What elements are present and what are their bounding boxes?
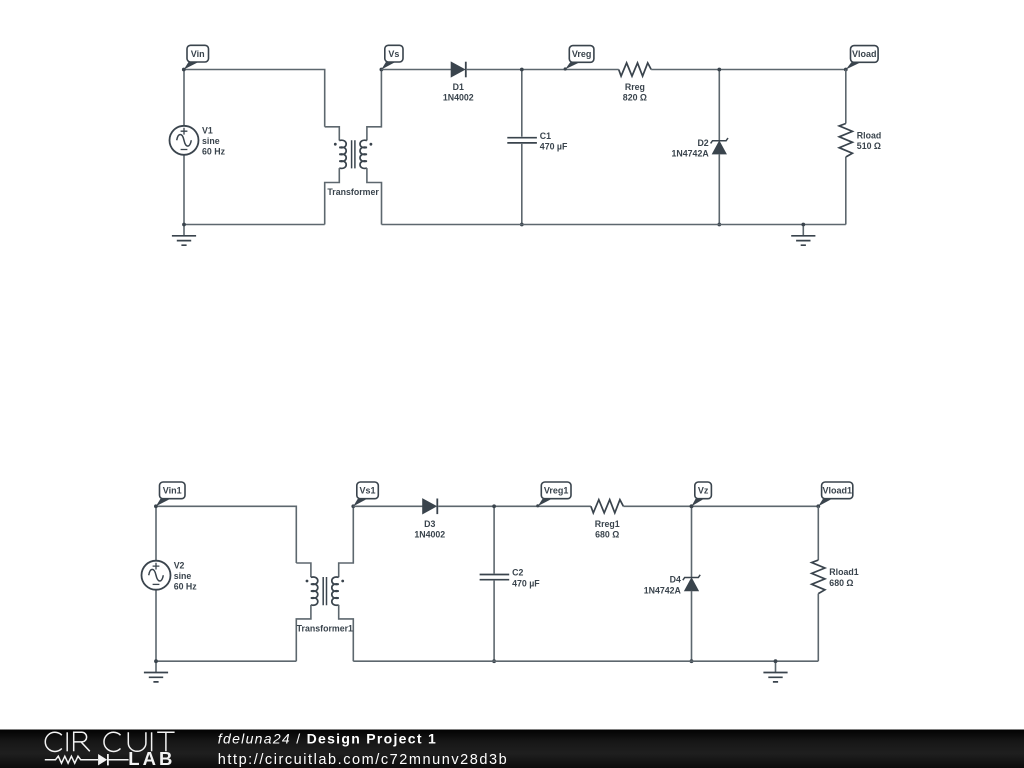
svg-text:Rload: Rload: [857, 131, 881, 141]
junction (D4 bottom): [690, 659, 694, 663]
svg-text:C1: C1: [540, 131, 551, 141]
junction (right ground node): [801, 223, 805, 227]
svg-text:1N4742A: 1N4742A: [644, 585, 682, 595]
svg-text:Rreg1: Rreg1: [595, 519, 620, 529]
zener diode D2: [711, 138, 728, 154]
junction (bottom right ground node): [774, 659, 778, 663]
node flag Vload: [844, 46, 878, 72]
node flag Vs: [380, 45, 404, 71]
value label C2 470 uF: [512, 568, 540, 589]
value label D3 1N4002: [414, 519, 445, 540]
svg-text:Vload: Vload: [852, 49, 877, 59]
resistor Rload1: [812, 560, 825, 594]
svg-text:60 Hz: 60 Hz: [174, 581, 198, 591]
svg-text:D3: D3: [424, 519, 435, 529]
capacitor C1: [507, 138, 537, 143]
value label Rreg 820: [623, 82, 647, 103]
wire V1 bottom to ground node: [183, 155, 185, 224]
junction (D4 top): [690, 504, 694, 508]
wire D1 cathode to Rreg left: [467, 69, 619, 71]
junction (D2 bottom): [717, 223, 721, 227]
junction (D2 top): [717, 68, 721, 72]
wire Rreg1 right to Vload1 corner: [623, 505, 818, 507]
node flag Vs1: [351, 482, 378, 508]
svg-text:V1: V1: [202, 126, 213, 136]
svg-text:Vs1: Vs1: [359, 486, 375, 496]
zener diode D2 branch wire upper: [718, 70, 720, 141]
value label V2 sine 60 Hz: [174, 560, 198, 591]
svg-text:Vin: Vin: [191, 49, 205, 59]
svg-text:820 Ω: 820 Ω: [623, 93, 647, 103]
svg-text:Vload1: Vload1: [822, 486, 852, 496]
diode D3: [423, 499, 438, 515]
wire Vin1 node down to V2 top: [155, 506, 157, 560]
junction (V2 ground node): [154, 659, 158, 663]
svg-text:C2: C2: [512, 568, 523, 578]
node flag Vin: [182, 45, 209, 71]
svg-text:LAB: LAB: [128, 748, 175, 768]
svg-text:Rload1: Rload1: [829, 567, 858, 577]
junction (V1 ground node): [182, 223, 186, 227]
wire D3 cathode to Rreg1 left: [438, 505, 591, 507]
resistor Rload1 branch wire lower: [817, 594, 819, 662]
node flag Vin1: [154, 482, 185, 508]
value label D1 1N4002: [443, 82, 474, 103]
node flag Vreg1: [536, 482, 571, 507]
value label D4 1N4742A: [644, 575, 682, 596]
resistor Rload1 branch wire upper: [817, 506, 819, 560]
svg-text:fdeluna24 / Design Project 1: fdeluna24 / Design Project 1: [218, 731, 437, 747]
svg-text:1N4002: 1N4002: [443, 93, 474, 103]
svg-text:V2: V2: [174, 560, 185, 570]
wire top-left from Vin1 node to transformer1 primary top: [156, 506, 296, 563]
svg-text:sine: sine: [174, 571, 192, 581]
junction (C1 bottom): [520, 223, 524, 227]
zener diode D4 branch wire lower: [691, 591, 693, 662]
node flag Vload1: [816, 482, 852, 508]
junction (C2 top): [492, 504, 496, 508]
svg-text:Rreg: Rreg: [625, 82, 645, 92]
transformer Transformer: [325, 70, 382, 225]
capacitor C2 branch wire lower: [493, 581, 495, 662]
wire bottom-left from ground node to transformer1 primary bottom: [156, 660, 296, 662]
voltage source V1: [170, 126, 199, 155]
wire bottom of secondary loop (bottom circuit): [353, 660, 818, 662]
wire bottom of secondary loop: [382, 224, 846, 226]
ground (below V1): [172, 225, 196, 246]
resistor Rload branch wire upper: [845, 70, 847, 124]
diode D1: [451, 62, 466, 78]
value label Rreg1 680: [595, 519, 620, 540]
svg-text:1N4742A: 1N4742A: [672, 149, 710, 159]
junction (C2 bottom): [492, 659, 496, 663]
ground (top circuit right): [791, 225, 815, 246]
wire bottom-left from ground node to transformer primary bottom: [184, 224, 325, 226]
capacitor C2: [480, 575, 510, 580]
svg-text:D1: D1: [453, 82, 464, 92]
svg-text:Vz: Vz: [698, 486, 709, 496]
zener diode D4 branch wire upper: [691, 506, 693, 577]
value label Rload 510: [857, 131, 881, 152]
capacitor C1 branch wire lower: [521, 144, 523, 225]
capacitor C1 branch wire upper: [521, 70, 523, 137]
resistor Rload: [839, 124, 852, 158]
transformer Transformer1: [296, 506, 353, 661]
svg-text:Vreg1: Vreg1: [544, 486, 569, 496]
svg-text:Vs: Vs: [388, 49, 399, 59]
svg-text:sine: sine: [202, 136, 220, 146]
svg-text:470 µF: 470 µF: [540, 142, 568, 152]
node flag Vz: [690, 482, 712, 508]
svg-text:470 µF: 470 µF: [512, 578, 540, 588]
svg-text:60 Hz: 60 Hz: [202, 147, 226, 157]
svg-text:Vin1: Vin1: [163, 486, 182, 496]
node flag Vreg: [564, 46, 594, 71]
svg-text:Transformer: Transformer: [327, 187, 379, 197]
resistor Rreg: [619, 63, 652, 76]
capacitor C2 branch wire upper: [493, 506, 495, 573]
resistor Rload branch wire lower: [845, 157, 847, 225]
CircuitLab logo CIRCUIT: [45, 732, 174, 751]
svg-text:1N4002: 1N4002: [414, 530, 445, 540]
svg-text:D4: D4: [670, 575, 681, 585]
svg-text:680 Ω: 680 Ω: [595, 530, 619, 540]
wire top-left from Vin node to transformer primary top: [184, 70, 325, 127]
resistor Rreg1: [591, 500, 624, 513]
wire Rreg right to Vload corner: [651, 69, 846, 71]
svg-text:680 Ω: 680 Ω: [829, 578, 853, 588]
junction (C1 top): [520, 68, 524, 72]
wire Vs1 node to D3 anode: [353, 505, 422, 507]
value label D2 1N4742A: [672, 138, 710, 159]
zener diode D4: [683, 575, 700, 591]
ground (bottom circuit right): [763, 661, 787, 682]
zener diode D2 branch wire lower: [718, 154, 720, 225]
value label Rload1 680: [829, 567, 858, 588]
value label C1 470 uF: [540, 131, 568, 152]
svg-text:Transformer1: Transformer1: [297, 624, 353, 634]
svg-text:D2: D2: [697, 138, 708, 148]
wire V2 bottom to ground node: [155, 590, 157, 661]
wire Vin node down to V1 top: [183, 70, 185, 126]
CircuitLab logo resistor-diode squiggle: [45, 754, 129, 765]
voltage source V2: [142, 561, 171, 590]
value label V1 sine 60 Hz: [202, 126, 226, 157]
svg-text:http://circuitlab.com/c72mnunv: http://circuitlab.com/c72mnunv28d3b: [218, 752, 508, 768]
svg-text:510 Ω: 510 Ω: [857, 141, 881, 151]
wire Vs node to D1 anode: [381, 69, 451, 71]
svg-text:Vreg: Vreg: [572, 49, 592, 59]
ground (below V2): [144, 661, 168, 682]
